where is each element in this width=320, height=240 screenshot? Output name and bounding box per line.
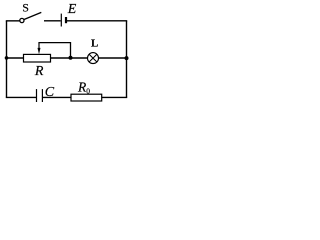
wire middle rail right segment <box>98 57 126 59</box>
resistor R (rheostat) box <box>24 54 51 62</box>
svg-text:R: R <box>34 64 44 79</box>
wire top rail right segment <box>67 20 127 22</box>
wire bottom rail left segment <box>6 96 36 98</box>
capacitor C left plate <box>36 89 38 102</box>
wire left vertical <box>6 21 8 98</box>
wire wiper to node <box>38 43 70 57</box>
resistor R0 box <box>71 94 102 101</box>
wire right vertical <box>126 21 128 98</box>
node junction dot right <box>125 56 129 60</box>
svg-text:L: L <box>91 38 98 50</box>
rheostat wiper arrow <box>38 43 40 49</box>
wire bottom rail middle segment <box>43 96 71 98</box>
node junction dot left <box>5 56 9 60</box>
battery E short plate <box>65 17 67 23</box>
wire top rail middle segment <box>44 20 61 22</box>
switch S hinge circle <box>20 18 24 22</box>
battery E long plate <box>60 14 62 27</box>
wire middle rail center segment <box>51 57 88 59</box>
wire top rail left segment <box>6 20 20 22</box>
svg-text:E: E <box>67 2 77 17</box>
svg-text:0: 0 <box>86 87 90 96</box>
wire bottom rail right segment <box>102 96 128 98</box>
svg-text:S: S <box>22 1 29 15</box>
lamp L <box>88 53 99 64</box>
capacitor C right plate <box>41 89 43 102</box>
wire middle rail left segment <box>7 57 24 59</box>
switch S blade <box>24 12 42 19</box>
node junction dot wiper <box>69 56 73 60</box>
